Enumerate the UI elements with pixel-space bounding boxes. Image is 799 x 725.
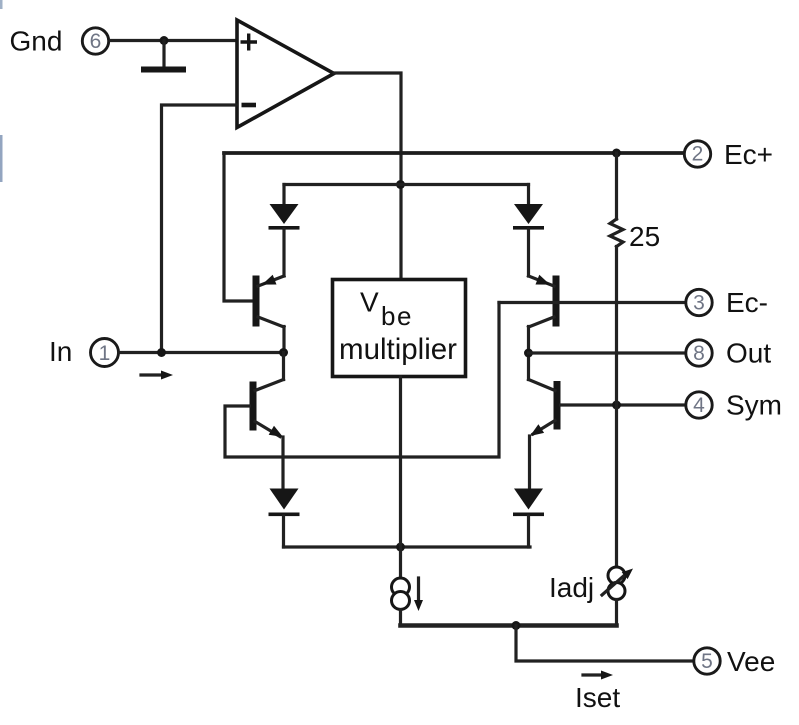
pin 5 circle — [694, 648, 720, 674]
wire to Vee — [516, 626, 693, 662]
resistor 25 — [610, 219, 623, 247]
Iset arrow — [583, 673, 603, 676]
current source Iset — [392, 578, 410, 596]
svg-text:Out: Out — [726, 338, 771, 369]
wire Gnd to op-amp + input — [110, 39, 237, 42]
svg-text:25: 25 — [629, 221, 660, 252]
svg-text:In: In — [49, 336, 72, 367]
wire lower rail — [401, 623, 617, 628]
node bottom rail junction — [396, 543, 405, 552]
wire Ec+ rail to Q1 base — [224, 153, 253, 301]
pin 3 circle — [686, 289, 712, 315]
transistor Q1 — [253, 276, 260, 327]
node Gnd junction — [160, 36, 169, 45]
svg-text:3: 3 — [693, 292, 705, 315]
In current arrow — [141, 373, 163, 376]
wire op-amp minus input — [162, 105, 238, 353]
wire right vertical / resistor branch — [615, 153, 618, 219]
svg-text:1: 1 — [99, 342, 111, 365]
wire Out line — [529, 351, 686, 354]
pin 6 circle — [82, 28, 108, 54]
node Out junction — [524, 349, 533, 358]
pin 8 circle — [686, 340, 712, 366]
svg-text:Iadj: Iadj — [549, 572, 594, 603]
pin 1 circle — [91, 339, 119, 367]
svg-text:Iset: Iset — [575, 682, 620, 713]
svg-text:V: V — [360, 287, 379, 318]
edge artifact left blue line — [0, 135, 3, 182]
node In/minus junction — [157, 348, 166, 357]
diode D2 — [527, 185, 530, 206]
svg-text:5: 5 — [701, 650, 713, 673]
node lower rail junction — [512, 621, 521, 630]
current source Iadj — [608, 567, 625, 584]
diode D4 — [514, 489, 543, 510]
node Ec+ junction — [612, 149, 621, 158]
node In/collectors junction — [279, 348, 288, 357]
svg-text:multiplier: multiplier — [339, 333, 457, 366]
diode D1 — [282, 185, 285, 206]
diode D3 — [270, 489, 299, 510]
svg-text:Sym: Sym — [726, 390, 782, 421]
transistor Q2 — [250, 382, 257, 431]
node output/diode rail junction — [396, 180, 405, 189]
svg-text:Vee: Vee — [727, 646, 775, 677]
wire diode rail y=184 — [284, 183, 529, 186]
wire Ec- line — [499, 301, 685, 304]
svg-text:Gnd: Gnd — [10, 26, 63, 57]
svg-text:Ec+: Ec+ — [724, 139, 773, 170]
transistor Q3 — [553, 276, 560, 327]
op-amp U1 — [237, 20, 334, 128]
svg-text:2: 2 — [692, 143, 704, 166]
transistor Q4 — [554, 381, 561, 430]
wire Ec+ rail — [224, 151, 684, 155]
ground — [162, 41, 165, 68]
svg-text:Ec-: Ec- — [726, 287, 768, 318]
svg-text:be: be — [381, 301, 413, 331]
pin 2 circle — [684, 141, 710, 167]
wire below box — [399, 377, 402, 578]
edge artifact top-left — [0, 0, 3, 9]
svg-text:4: 4 — [693, 394, 705, 417]
wire In rail — [119, 351, 284, 354]
Vbe multiplier box — [333, 280, 466, 377]
wire op-amp output — [334, 73, 401, 279]
svg-text:6: 6 — [90, 30, 102, 53]
wire bottom rail — [284, 545, 531, 548]
svg-text:8: 8 — [693, 342, 705, 365]
pin 4 circle — [686, 392, 712, 418]
